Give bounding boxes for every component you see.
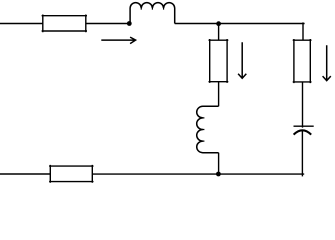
node C junction dot: [216, 172, 221, 177]
arrow I2 (downward, beside R2): [238, 42, 246, 78]
node A junction dot: [127, 21, 132, 26]
resistor R3 (right vertical box): [293, 39, 312, 83]
arrow I3 (downward, beside R3): [323, 45, 331, 80]
wire node B down to R2: [218, 24, 220, 41]
wire node B to top-right corner: [219, 23, 305, 25]
inductor L2 (middle vertical coil, 4 loops): [197, 106, 219, 152]
resistor R2 (middle vertical box): [209, 39, 229, 83]
capacitor C1 straight plate: [294, 125, 314, 127]
capacitor C1 curved plate: [294, 130, 312, 134]
node B junction dot: [216, 21, 221, 26]
wire C1 down to bottom-right corner: [301, 131, 303, 177]
wire R1 to node A: [86, 23, 130, 25]
inductor L1 loop cusp ticks: [141, 8, 163, 10]
wire L2 down to node C: [218, 153, 220, 174]
resistor R4 (bottom series box): [49, 165, 93, 183]
resistor R1 (top left series box): [42, 15, 87, 33]
wire top-right corner down to R3: [302, 22, 304, 40]
wire R4 to node C and bottom-right corner: [92, 173, 304, 175]
wire bottom-left input to R4: [0, 173, 50, 175]
inductor L2 loop cusp ticks: [202, 118, 204, 141]
wire top-left input to R1: [0, 23, 43, 25]
wire R2 to L2: [218, 82, 220, 107]
current arrow I (to the right, under top wire): [101, 37, 135, 44]
inductor L1 (top horizontal coil, 4 loops): [130, 3, 175, 24]
wire R3 down to C1: [302, 82, 304, 128]
wire L1 to node B: [175, 23, 219, 25]
